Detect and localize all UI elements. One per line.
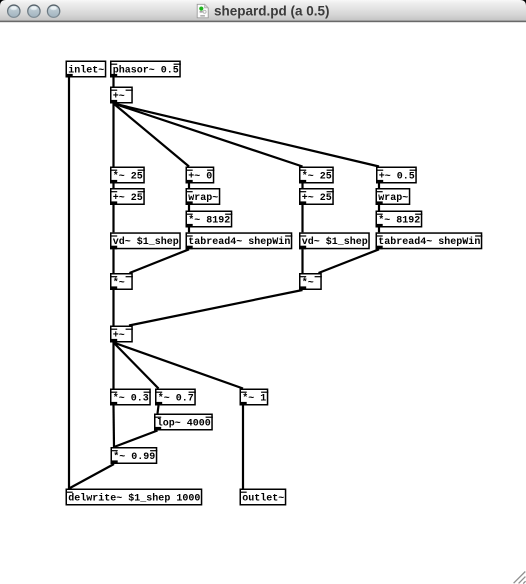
object *~ (left) [110, 274, 133, 290]
object *~ (right) [299, 274, 322, 290]
object *~ 8192 (right) [376, 211, 423, 227]
wire +~ 0.5 to wrap~ right [378, 184, 380, 189]
wire +~ 25 left to vd~ left [112, 205, 114, 232]
object *~ 8192 (left) [186, 211, 233, 227]
object *~ 25 (right) [299, 167, 334, 183]
title bar [0, 0, 526, 22]
wire +~ A to *~ 25 right [114, 104, 303, 167]
wire *~ 1 to outlet~ [242, 406, 244, 489]
wire *~ 25 right to +~ 25 right [301, 184, 303, 189]
wire vd~ right to *~ right [301, 249, 303, 273]
zoom button [47, 4, 61, 18]
wire *~ 0.7 to lop~ [158, 406, 159, 414]
wire tabread4~ left to *~ left right inlet [130, 249, 190, 273]
svg-text:vd~ $1_shep: vd~ $1_shep [113, 236, 179, 248]
minimize button [27, 4, 41, 18]
object *~ 0.3 [110, 389, 151, 405]
svg-text:outlet~: outlet~ [242, 492, 284, 504]
wire wrap~ right to *~ 8192 right [378, 205, 380, 211]
object +~ (top sum) [110, 87, 133, 103]
svg-text:*~ 8192: *~ 8192 [378, 214, 420, 226]
wire tabread4~ right to *~ right right inlet [319, 249, 380, 273]
wire lop~ to *~ 0.99 [114, 431, 158, 448]
object wrap~ (left) [186, 189, 220, 205]
wire *~ 0.3 to *~ 0.99 [112, 406, 115, 448]
svg-text:+~ 25: +~ 25 [113, 193, 143, 204]
wire *~ 8192 left to tabread4~ left [188, 228, 190, 233]
wire phasor~ to +~ A [112, 78, 114, 87]
object *~ 0.99 [111, 448, 158, 464]
svg-text:*~ 8192: *~ 8192 [188, 214, 230, 226]
resize grip [514, 572, 526, 584]
object +~ 0.5 [376, 167, 417, 183]
object +~ 25 (right) [299, 189, 334, 205]
object +~ 0 [186, 167, 215, 183]
svg-text:phasor~ 0.5: phasor~ 0.5 [113, 64, 179, 76]
object delwrite~ $1_shep 1000 [66, 489, 202, 505]
object wrap~ (right) [376, 189, 410, 205]
wire *~ left to +~ B [112, 290, 114, 326]
svg-text:shepard.pd (a 0.5): shepard.pd (a 0.5) [214, 4, 330, 19]
svg-text:*~ 25: *~ 25 [302, 170, 332, 182]
svg-text:*~: *~ [302, 277, 314, 289]
wire +~ A to *~ 25 left [112, 104, 114, 167]
object *~ 1 [240, 389, 269, 405]
object vd~ $1_shep (right) [299, 233, 369, 249]
svg-text:tabread4~ shepWin: tabread4~ shepWin [378, 236, 480, 248]
svg-text:*~ 0.3: *~ 0.3 [113, 392, 149, 404]
wire inlet~ to delwrite~ [68, 78, 70, 489]
object outlet~ [240, 489, 286, 505]
object lop~ 4000 [154, 414, 213, 430]
wire +~ A to +~ 0 [114, 104, 190, 167]
svg-text:delwrite~ $1_shep 1000: delwrite~ $1_shep 1000 [68, 492, 200, 504]
object tabread4~ shepWin (right) [376, 233, 483, 249]
svg-text:wrap~: wrap~ [378, 193, 408, 204]
document icon [197, 4, 208, 17]
wire *~ 8192 right to tabread4~ right [378, 228, 380, 233]
wire vd~ left to *~ left [112, 249, 114, 273]
wire +~ B to *~ 0.7 [114, 343, 159, 389]
object *~ 0.7 [155, 389, 196, 405]
svg-text:*~ 25: *~ 25 [113, 170, 143, 182]
svg-text:lop~ 4000: lop~ 4000 [157, 417, 211, 429]
wire wrap~ left to *~ 8192 left [188, 205, 190, 211]
svg-text:inlet~: inlet~ [68, 64, 104, 76]
svg-text:*~ 1: *~ 1 [242, 392, 266, 404]
object vd~ $1_shep (left) [110, 233, 180, 249]
svg-text:+~ 0: +~ 0 [188, 171, 212, 182]
svg-text:+~: +~ [113, 91, 125, 102]
svg-text:*~: *~ [113, 277, 125, 289]
svg-text:*~ 0.99: *~ 0.99 [113, 451, 155, 463]
svg-text:vd~ $1_shep: vd~ $1_shep [302, 236, 368, 248]
wire +~ B to *~ 0.3 [112, 343, 114, 389]
wire +~ 25 right to vd~ right [301, 205, 303, 232]
svg-text:+~ 0.5: +~ 0.5 [379, 171, 415, 182]
svg-text:wrap~: wrap~ [188, 193, 218, 204]
object inlet~ [66, 61, 106, 77]
wire +~ B to *~ 1 [114, 343, 244, 389]
svg-text:*~ 0.7: *~ 0.7 [158, 392, 194, 404]
object tabread4~ shepWin (left) [186, 233, 293, 249]
object *~ 25 (left) [110, 167, 145, 183]
svg-text:+~ 25: +~ 25 [302, 193, 332, 204]
object +~ (bottom sum) [110, 326, 133, 342]
wire *~ 25 left to +~ 25 left [112, 184, 114, 189]
wire *~ right to +~ B right inlet [129, 290, 303, 326]
svg-text:+~: +~ [113, 330, 125, 341]
wire +~ 0 to wrap~ left [188, 183, 190, 189]
object +~ 25 (left) [110, 189, 145, 205]
object phasor~ 0.5 [110, 61, 181, 77]
wire +~ A to +~ 0.5 [114, 104, 380, 167]
close button [7, 4, 21, 18]
svg-text:tabread4~ shepWin: tabread4~ shepWin [188, 236, 290, 248]
wire *~ 0.99 to delwrite~ [69, 464, 114, 489]
